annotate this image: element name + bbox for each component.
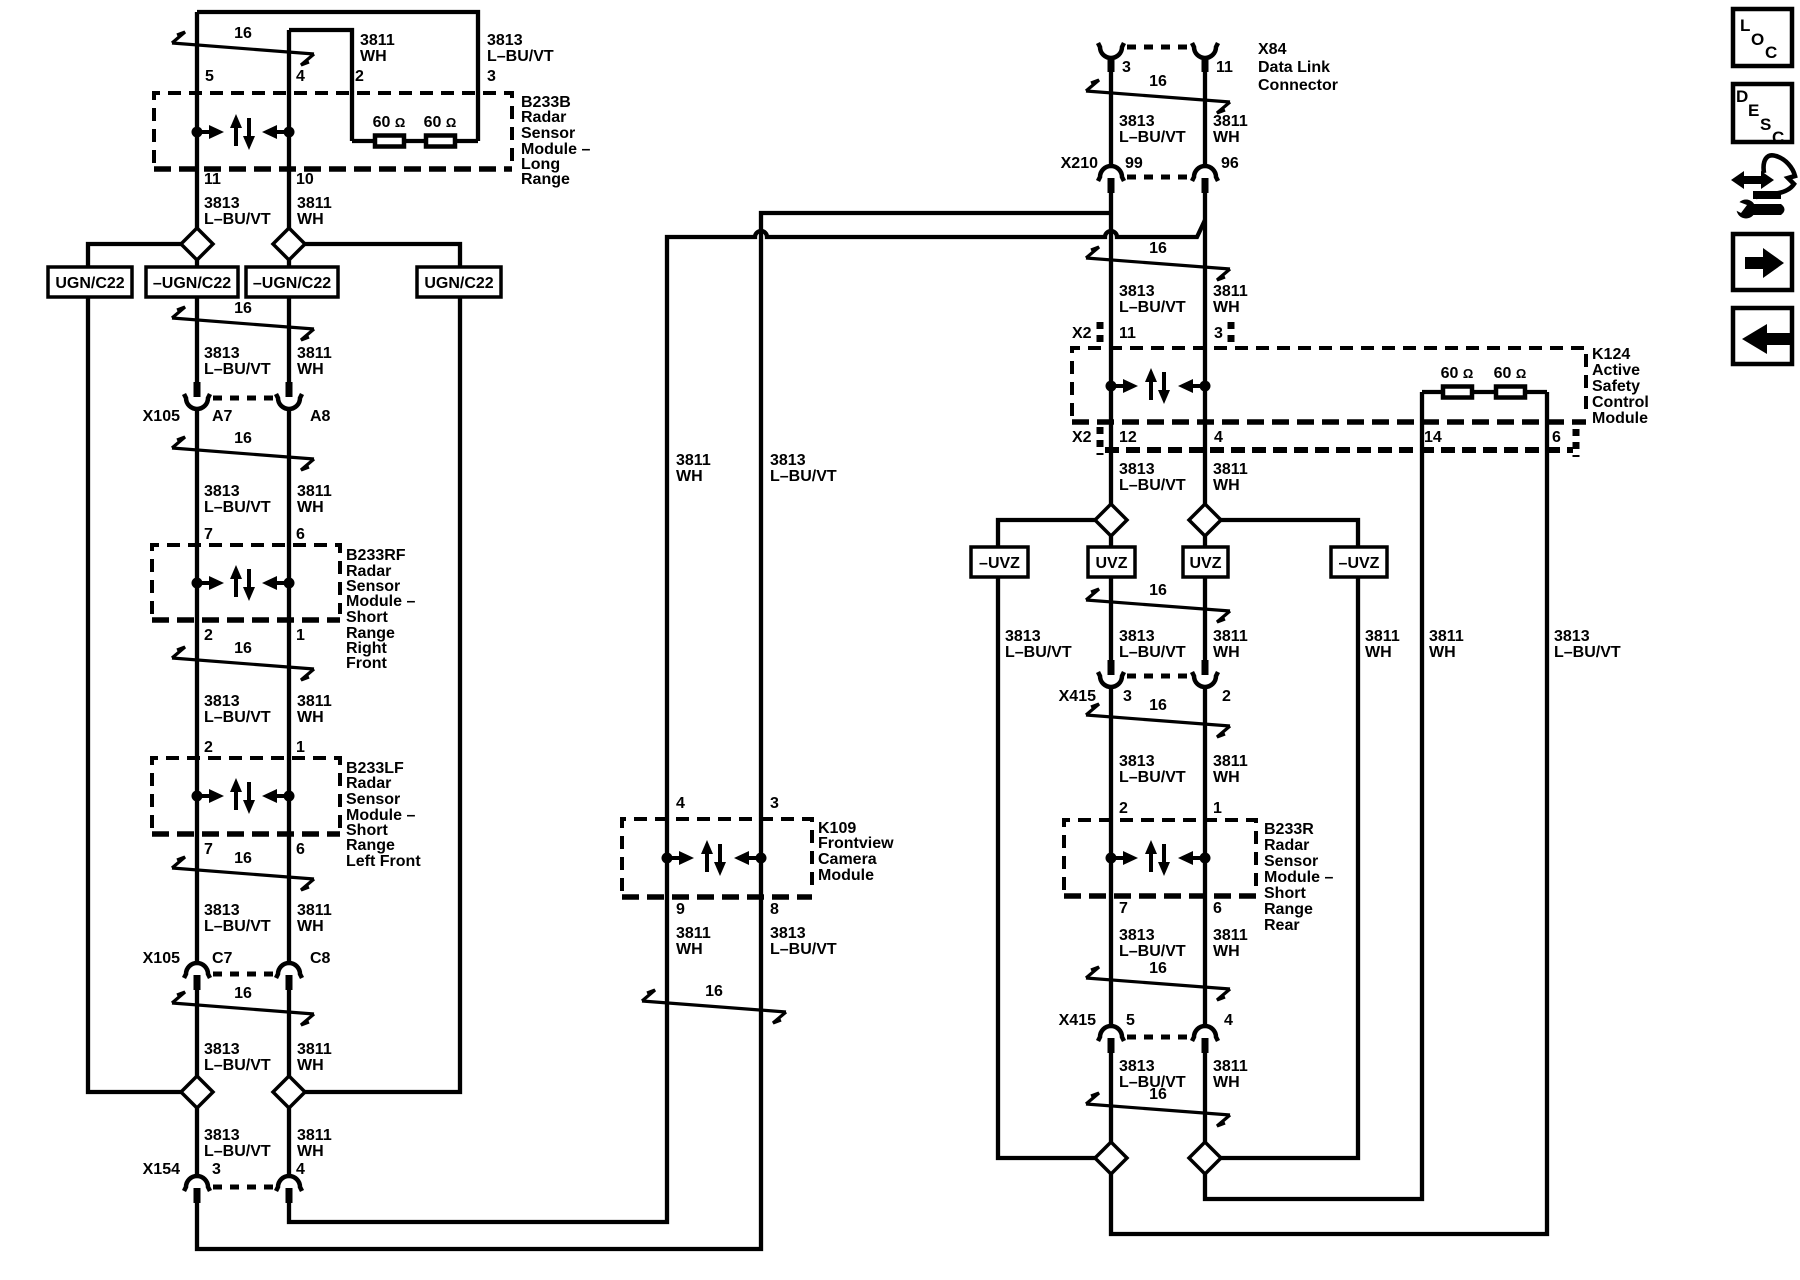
connector label box –UGN/C22 (C2) (146, 267, 238, 297)
splice S7 (1095, 1142, 1127, 1174)
wire 3813 to splice S3 (195, 990, 199, 1076)
in-line connector X415 3/2 (1098, 660, 1218, 687)
wire 3811 to splice S8 (1203, 1053, 1207, 1142)
wire 3813 X210 to K124 splice (1109, 193, 1113, 504)
svg-text:99: 99 (1125, 155, 1143, 172)
icon box forward arrow (1733, 234, 1792, 290)
wire 3811 X210 to K124 splice (1203, 193, 1207, 504)
svg-text:Module –: Module – (1264, 869, 1333, 886)
connector X2 bottom line (1105, 447, 1573, 453)
svg-text:3811: 3811 (1213, 283, 1248, 300)
connector label box UVZ (C6) (1088, 547, 1135, 577)
svg-text:1: 1 (296, 739, 305, 756)
svg-text:16: 16 (234, 25, 252, 42)
svg-text:B233RF: B233RF (346, 547, 406, 564)
svg-text:3813: 3813 (487, 32, 523, 49)
wire S3 down (195, 1108, 199, 1176)
svg-text:3811: 3811 (1213, 753, 1248, 770)
svg-text:5: 5 (205, 68, 214, 85)
svg-text:3811: 3811 (676, 925, 711, 942)
svg-text:Camera: Camera (818, 851, 877, 868)
wire 3811 X84 to X210 (1203, 71, 1207, 166)
svg-text:Range: Range (346, 837, 395, 854)
svg-text:A8: A8 (310, 408, 331, 425)
svg-text:L–BU/VT: L–BU/VT (204, 499, 271, 516)
svg-text:3811: 3811 (297, 195, 332, 212)
splice S4 (273, 1076, 305, 1108)
svg-text:X105: X105 (143, 408, 180, 425)
svg-text:X105: X105 (143, 950, 180, 967)
svg-text:A7: A7 (212, 408, 233, 425)
splice S5 (1095, 504, 1127, 536)
wire left wire 3811 upper (287, 30, 291, 228)
svg-text:WH: WH (1429, 644, 1456, 661)
svg-text:3811: 3811 (1213, 1058, 1248, 1075)
svg-text:3811: 3811 (1213, 927, 1248, 944)
connector label box UGN/C22 (C4) (417, 267, 501, 297)
svg-text:WH: WH (1213, 477, 1240, 494)
svg-text:L–BU/VT: L–BU/VT (487, 48, 554, 65)
svg-text:2: 2 (1119, 800, 1128, 817)
wire S4 down (287, 1108, 291, 1176)
in-line connector X105 C7/C8 (184, 963, 302, 990)
svg-text:3811: 3811 (1213, 113, 1248, 130)
svg-text:16: 16 (234, 430, 252, 447)
svg-text:3813: 3813 (1119, 628, 1155, 645)
svg-text:L–BU/VT: L–BU/VT (204, 361, 271, 378)
wire S8 bottom run to K124 pin 14 (1205, 392, 1422, 1199)
svg-text:Module: Module (818, 867, 874, 884)
svg-text:3811: 3811 (1429, 628, 1464, 645)
serial data arrows B233LF (192, 778, 295, 814)
wire 3813 to B233R (1109, 687, 1113, 1026)
resistor R3 (60 ohm) (1443, 387, 1472, 398)
svg-text:B233R: B233R (1264, 821, 1314, 838)
wire 3813 X84 to X210 (1109, 71, 1113, 166)
twisted-pair marker T4 (172, 640, 314, 680)
svg-text:4: 4 (1224, 1012, 1233, 1029)
svg-text:Module: Module (1592, 410, 1648, 427)
svg-text:3813: 3813 (1119, 753, 1155, 770)
twisted-pair marker T12 (1086, 960, 1230, 1000)
svg-text:L–BU/VT: L–BU/VT (1005, 644, 1072, 661)
svg-text:Range: Range (1264, 901, 1313, 918)
svg-text:L–BU/VT: L–BU/VT (204, 918, 271, 935)
svg-text:L–BU/VT: L–BU/VT (1119, 299, 1186, 316)
wire 3811 to B233RF (287, 409, 291, 963)
wire splice S2 to UGN/C22 (305, 244, 460, 267)
svg-text:L–BU/VT: L–BU/VT (770, 941, 837, 958)
svg-text:X2: X2 (1072, 429, 1092, 446)
in-line connector X105 A7/A8 (184, 382, 302, 409)
svg-text:C7: C7 (212, 950, 233, 967)
svg-text:X84: X84 (1258, 41, 1287, 58)
svg-text:WH: WH (1213, 299, 1240, 316)
svg-text:Sensor: Sensor (1264, 853, 1318, 870)
twisted-pair marker T3 (172, 430, 314, 470)
svg-text:X415: X415 (1059, 688, 1096, 705)
wire left wire 3813 upper (195, 12, 199, 228)
svg-text:WH: WH (1213, 129, 1240, 146)
svg-text:16: 16 (1149, 582, 1167, 599)
svg-text:L–BU/VT: L–BU/VT (204, 1143, 271, 1160)
svg-text:–UVZ: –UVZ (1339, 555, 1380, 572)
icon box LOC (1733, 9, 1792, 66)
wire B233B internal resistor row (352, 139, 478, 143)
module box B233B Radar Sensor Module - Long Range (154, 93, 512, 169)
twisted-pair marker T1 (172, 25, 314, 65)
svg-text:16: 16 (1149, 240, 1167, 257)
svg-text:4: 4 (296, 1161, 305, 1178)
wire 3813 below box (195, 297, 199, 382)
wire 3811 below box (287, 297, 291, 382)
svg-text:2: 2 (204, 627, 213, 644)
svg-text:WH: WH (1213, 644, 1240, 661)
svg-text:3813: 3813 (770, 452, 806, 469)
wire -UVZ left drop (998, 577, 1095, 1158)
svg-text:WH: WH (297, 918, 324, 935)
svg-text:11: 11 (1216, 59, 1233, 76)
svg-text:Safety: Safety (1592, 378, 1640, 395)
svg-text:9: 9 (676, 901, 685, 918)
svg-text:X2: X2 (1072, 325, 1092, 342)
wire K124 terminating resistor branch (1422, 390, 1547, 394)
wire S5 down (1109, 536, 1113, 547)
svg-text:3813: 3813 (204, 902, 240, 919)
svg-text:14: 14 (1424, 429, 1442, 446)
in-line connector X415 5/4 (1098, 1026, 1218, 1053)
svg-text:E: E (1748, 101, 1759, 120)
svg-text:WH: WH (1365, 644, 1392, 661)
wire 3813 bottom run to K109 pin 8 (197, 897, 761, 1249)
twisted-pair marker T6 (172, 985, 314, 1025)
serial data arrows K124 (1106, 368, 1211, 404)
svg-text:3813: 3813 (1554, 628, 1590, 645)
svg-text:L–BU/VT: L–BU/VT (204, 709, 271, 726)
svg-text:6: 6 (1213, 900, 1222, 917)
svg-text:3813: 3813 (1119, 113, 1155, 130)
svg-text:60 Ω: 60 Ω (1441, 365, 1474, 382)
svg-text:X154: X154 (143, 1161, 180, 1178)
svg-text:3811: 3811 (297, 902, 332, 919)
icon service arrow and wrench (1729, 155, 1795, 218)
svg-text:10: 10 (296, 171, 314, 188)
svg-text:2: 2 (1222, 688, 1231, 705)
connector label box UGN/C22 (C1) (48, 267, 132, 297)
wire UVZ 3813 drop (1109, 577, 1113, 660)
connector label box –UVZ (C5) (971, 547, 1028, 577)
connector label box –UVZ (C8) (1331, 547, 1387, 577)
svg-text:Rear: Rear (1264, 917, 1300, 934)
twisted-pair marker T5 (172, 850, 314, 890)
svg-text:6: 6 (296, 841, 305, 858)
svg-text:16: 16 (234, 850, 252, 867)
twisted-pair marker T13 (1086, 1086, 1230, 1126)
resistor R2 (60 ohm) (426, 136, 455, 147)
svg-text:1: 1 (1213, 800, 1222, 817)
svg-text:WH: WH (360, 48, 387, 65)
svg-text:Radar: Radar (1264, 837, 1309, 854)
svg-text:L–BU/VT: L–BU/VT (204, 211, 271, 228)
svg-text:16: 16 (705, 983, 723, 1000)
svg-text:3: 3 (1123, 688, 1132, 705)
module box B233RF Radar Sensor Module - Short Range Right Front (152, 545, 340, 620)
svg-text:3813: 3813 (204, 1127, 240, 1144)
svg-text:8: 8 (770, 901, 779, 918)
svg-text:3: 3 (487, 68, 496, 85)
svg-text:2: 2 (355, 68, 364, 85)
svg-text:X415: X415 (1059, 1012, 1096, 1029)
wire 3813 to splice S7 (1109, 1053, 1113, 1142)
svg-text:11: 11 (204, 171, 221, 188)
svg-text:Range: Range (521, 171, 570, 188)
svg-text:L–BU/VT: L–BU/VT (1119, 644, 1186, 661)
connector X84 Data Link Connector (1098, 43, 1218, 72)
svg-text:3813: 3813 (1005, 628, 1041, 645)
svg-text:3811: 3811 (297, 1041, 332, 1058)
svg-text:S: S (1760, 115, 1771, 134)
svg-text:Sensor: Sensor (521, 125, 575, 142)
svg-text:60 Ω: 60 Ω (424, 114, 457, 131)
wire S6 to -UVZ (1221, 520, 1358, 547)
svg-text:WH: WH (297, 1143, 324, 1160)
svg-text:3813: 3813 (204, 345, 240, 362)
svg-text:3811: 3811 (297, 483, 332, 500)
svg-text:WH: WH (297, 499, 324, 516)
svg-text:WH: WH (1213, 1074, 1240, 1091)
svg-text:4: 4 (1214, 429, 1223, 446)
svg-text:3813: 3813 (1119, 927, 1155, 944)
module box K124 Active Safety Control Module (1072, 348, 1586, 422)
wire S2 down (287, 260, 291, 267)
svg-text:3813: 3813 (770, 925, 806, 942)
in-line connector X154 3/4 (184, 1176, 302, 1203)
svg-text:3811: 3811 (1365, 628, 1400, 645)
svg-text:WH: WH (297, 211, 324, 228)
svg-text:UVZ: UVZ (1190, 555, 1222, 572)
svg-text:96: 96 (1221, 155, 1239, 172)
svg-text:–UGN/C22: –UGN/C22 (153, 275, 231, 292)
svg-text:WH: WH (1213, 769, 1240, 786)
svg-text:C: C (1765, 43, 1777, 62)
wire 3811 to splice S4 (287, 990, 291, 1076)
wire B233B pin4/pin2 loop (289, 30, 352, 141)
wire -UVZ right drop (1221, 577, 1358, 1158)
serial data arrows B233RF (192, 565, 295, 601)
svg-text:3813: 3813 (204, 483, 240, 500)
splice S1 (181, 228, 213, 260)
svg-text:C: C (1772, 128, 1784, 147)
svg-text:4: 4 (296, 68, 305, 85)
svg-text:Sensor: Sensor (346, 791, 400, 808)
svg-text:4: 4 (676, 795, 685, 812)
in-line connector X210 99/96 (1098, 166, 1218, 193)
splice S8 (1189, 1142, 1221, 1174)
svg-text:WH: WH (297, 1057, 324, 1074)
svg-text:UVZ: UVZ (1096, 555, 1128, 572)
svg-text:60 Ω: 60 Ω (373, 114, 406, 131)
svg-text:3811: 3811 (297, 345, 332, 362)
svg-text:Left Front: Left Front (346, 853, 421, 870)
svg-text:Short: Short (346, 609, 388, 626)
svg-text:3813: 3813 (204, 195, 240, 212)
wire 3811 to B233R (1203, 687, 1207, 1026)
wire K109 3811 WH riser (667, 220, 1205, 897)
svg-text:K124: K124 (1592, 346, 1630, 363)
twisted-pair marker T2 (172, 300, 314, 340)
svg-text:C8: C8 (310, 950, 331, 967)
svg-text:3813: 3813 (1119, 1058, 1155, 1075)
svg-text:16: 16 (1149, 960, 1167, 977)
svg-text:X210: X210 (1061, 155, 1098, 172)
svg-text:7: 7 (204, 526, 213, 543)
svg-text:L–BU/VT: L–BU/VT (1554, 644, 1621, 661)
wire S7 bottom run to K124 pin 6 (1111, 392, 1547, 1234)
svg-text:L–BU/VT: L–BU/VT (1119, 769, 1186, 786)
resistor R1 (60 ohm) (375, 136, 404, 147)
wire S5 to -UVZ (998, 520, 1095, 547)
svg-text:3: 3 (770, 795, 779, 812)
wire B233B pin5/pin3 top loop (197, 12, 478, 141)
svg-text:7: 7 (1119, 900, 1128, 917)
splice S6 (1189, 504, 1221, 536)
twisted-pair marker T11 (1086, 697, 1230, 737)
wire splice S1 to UGN/C22 (88, 244, 181, 267)
svg-text:3811: 3811 (360, 32, 395, 49)
svg-text:Data Link: Data Link (1258, 59, 1330, 76)
module box B233LF Radar Sensor Module - Short Range Left Front (152, 758, 340, 834)
svg-text:3811: 3811 (676, 452, 711, 469)
svg-text:Frontview: Frontview (818, 835, 894, 852)
svg-text:Radar: Radar (521, 109, 566, 126)
svg-text:Short: Short (1264, 885, 1306, 902)
serial data arrows K109 (662, 840, 767, 876)
svg-text:Radar: Radar (346, 775, 391, 792)
svg-text:3: 3 (1122, 59, 1131, 76)
wire 3811 bottom run to K109 pin 9 (289, 897, 667, 1222)
svg-text:11: 11 (1119, 325, 1136, 342)
module box K109 Frontview Camera Module (622, 819, 812, 897)
wire left outer loop (88, 297, 181, 1092)
connector label box UVZ (C7) (1183, 547, 1228, 577)
svg-text:3811: 3811 (1213, 461, 1248, 478)
wire S6 down (1203, 536, 1207, 547)
svg-text:L–BU/VT: L–BU/VT (1119, 943, 1186, 960)
svg-text:WH: WH (297, 709, 324, 726)
twisted-pair marker T7 (642, 983, 786, 1023)
svg-text:3813: 3813 (204, 1041, 240, 1058)
svg-text:3811: 3811 (297, 1127, 332, 1144)
svg-text:Control: Control (1592, 394, 1649, 411)
twisted-pair marker T10 (1086, 582, 1230, 622)
svg-text:D: D (1736, 87, 1748, 106)
connector label box –UGN/C22 (C3) (246, 267, 338, 297)
svg-text:3: 3 (1214, 325, 1223, 342)
svg-text:WH: WH (297, 361, 324, 378)
icon box DESC (1733, 84, 1792, 147)
svg-text:–UVZ: –UVZ (979, 555, 1020, 572)
wire right outer loop (305, 297, 460, 1092)
svg-text:Active: Active (1592, 362, 1640, 379)
svg-text:3813: 3813 (1119, 283, 1155, 300)
twisted-pair marker T8 (1086, 73, 1230, 113)
svg-text:UGN/C22: UGN/C22 (55, 275, 124, 292)
connector X2 top marks (1097, 322, 1104, 344)
wire K109 3813 L-BU/VT riser (761, 213, 1111, 897)
svg-text:Front: Front (346, 655, 388, 672)
svg-text:16: 16 (1149, 697, 1167, 714)
svg-text:Connector: Connector (1258, 77, 1338, 94)
svg-text:16: 16 (234, 300, 252, 317)
svg-text:7: 7 (204, 841, 213, 858)
svg-text:6: 6 (296, 526, 305, 543)
svg-text:3813: 3813 (204, 693, 240, 710)
svg-text:3811: 3811 (1213, 628, 1248, 645)
svg-text:3813: 3813 (1119, 461, 1155, 478)
svg-text:UGN/C22: UGN/C22 (424, 275, 493, 292)
splice S3 (181, 1076, 213, 1108)
module box B233R Radar Sensor Module - Short Range Rear (1064, 820, 1256, 896)
svg-text:L–BU/VT: L–BU/VT (770, 468, 837, 485)
svg-text:3811: 3811 (297, 693, 332, 710)
svg-text:12: 12 (1119, 429, 1137, 446)
wire S1 down (195, 260, 199, 267)
splice S2 (273, 228, 305, 260)
svg-text:3: 3 (212, 1161, 221, 1178)
twisted-pair marker T9 (1086, 240, 1230, 280)
svg-text:60 Ω: 60 Ω (1494, 365, 1527, 382)
svg-text:WH: WH (1213, 943, 1240, 960)
svg-text:–UGN/C22: –UGN/C22 (253, 275, 331, 292)
svg-text:1: 1 (296, 627, 305, 644)
wire UVZ 3811 drop (1203, 577, 1207, 660)
svg-text:L–BU/VT: L–BU/VT (1119, 129, 1186, 146)
svg-text:16: 16 (234, 640, 252, 657)
svg-text:L–BU/VT: L–BU/VT (1119, 477, 1186, 494)
svg-text:16: 16 (1149, 1086, 1167, 1103)
serial data arrows B233B (192, 114, 295, 150)
svg-text:5: 5 (1126, 1012, 1135, 1029)
svg-text:WH: WH (676, 941, 703, 958)
resistor R4 (60 ohm) (1496, 387, 1525, 398)
svg-text:2: 2 (204, 739, 213, 756)
svg-text:16: 16 (1149, 73, 1167, 90)
svg-text:L: L (1740, 16, 1750, 35)
icon box back arrow (1733, 308, 1792, 364)
svg-text:L–BU/VT: L–BU/VT (204, 1057, 271, 1074)
svg-text:WH: WH (676, 468, 703, 485)
wire 3813 to B233RF (195, 409, 199, 963)
serial data arrows B233R (1106, 840, 1211, 876)
svg-text:16: 16 (234, 985, 252, 1002)
svg-text:O: O (1751, 30, 1764, 49)
svg-text:Module –: Module – (346, 593, 415, 610)
svg-text:6: 6 (1552, 429, 1561, 446)
